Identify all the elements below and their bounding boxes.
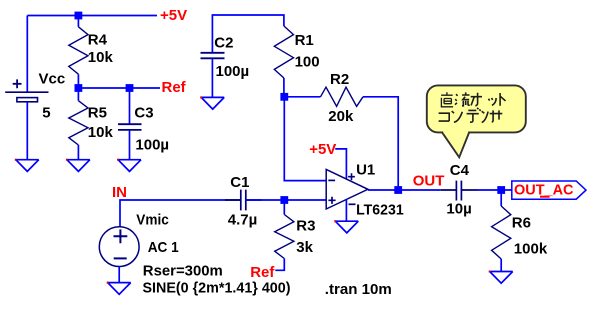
capacitor C3: [118, 124, 142, 130]
svg-text:20k: 20k: [328, 108, 354, 125]
label C2: [214, 35, 233, 52]
svg-text:R2: R2: [330, 71, 349, 88]
resistor R1: [274, 26, 293, 78]
value 100 (R1): [295, 54, 320, 71]
svg-text:R3: R3: [296, 218, 315, 235]
svg-text:10k: 10k: [88, 49, 114, 66]
value 100µ (C2): [216, 63, 250, 80]
label Vcc: [39, 70, 66, 87]
svg-text:SINE(0 {2m*1.41} 400): SINE(0 {2m*1.41} 400): [143, 280, 291, 297]
wire V- pin to ground: [345, 200, 347, 222]
svg-text:U1: U1: [356, 161, 375, 178]
label Vmic: [136, 212, 169, 229]
capacitor C1: [225, 190, 262, 211]
node +5V top junction: [75, 12, 83, 20]
value 10k (R4): [88, 49, 114, 66]
value Rser=300m: [143, 262, 223, 279]
node C3 tap junction: [126, 84, 134, 92]
callout balloon (DC-cut capacitor note): [427, 85, 526, 157]
voltage source Vcc battery: [5, 79, 48, 101]
wire Vcc to ground: [26, 102, 28, 160]
value AC 1: [148, 239, 179, 256]
svg-text:10µ: 10µ: [446, 201, 471, 218]
wire R3 to Ref: [275, 259, 284, 271]
svg-text:C3: C3: [134, 104, 153, 121]
wire +5V to V+ pin: [335, 149, 346, 179]
net label +5V (op-amp): [309, 141, 336, 158]
svg-text:IN: IN: [112, 184, 127, 201]
value 3k (R3): [296, 239, 313, 256]
wire C3 top lead: [129, 88, 131, 124]
resistor R6: [492, 206, 511, 259]
callout text 直流カット コンデンサ: [439, 92, 506, 122]
label R2: [330, 71, 349, 88]
svg-text:Ref: Ref: [162, 79, 187, 96]
label U1: [356, 161, 375, 178]
voltage source Vmic: [99, 227, 139, 267]
net label OUT: [413, 172, 445, 189]
wire R1 bottom lead: [283, 78, 285, 97]
net label Ref (top): [162, 79, 187, 96]
svg-text:100µ: 100µ: [216, 63, 250, 80]
svg-text:100: 100: [295, 54, 320, 71]
svg-text:+5V: +5V: [160, 7, 187, 24]
node R4-R5 junction: [75, 84, 83, 92]
label C3: [134, 104, 153, 121]
svg-text:3k: 3k: [296, 239, 313, 256]
ground (U1): [334, 220, 358, 233]
value LT6231: [356, 202, 404, 219]
net label Ref (bottom): [250, 264, 275, 281]
svg-text:100µ: 100µ: [135, 136, 169, 153]
node output junction: [394, 186, 402, 194]
svg-text:LT6231: LT6231: [356, 202, 404, 219]
wire R6 top lead: [500, 190, 502, 206]
svg-text:R5: R5: [88, 104, 107, 121]
svg-text:OUT: OUT: [413, 172, 445, 189]
label C1: [230, 174, 249, 191]
ground (Vmic): [107, 282, 131, 295]
ground (R5): [66, 159, 90, 172]
value 100µ (C3): [135, 136, 169, 153]
op-amp U1: [326, 169, 368, 209]
resistor R3: [275, 215, 294, 259]
wire C2-R1 top rail: [212, 15, 284, 53]
ground (C2): [200, 96, 224, 109]
label R5: [88, 104, 107, 121]
spice directive .tran: [325, 281, 392, 298]
wire R4 bottom lead: [77, 74, 79, 88]
net label +5V (top): [160, 7, 187, 24]
wire +5V top rail: [27, 16, 157, 93]
wire C1 to noninverting input: [246, 199, 326, 201]
svg-text:R1: R1: [295, 32, 314, 49]
ground (C3): [117, 159, 141, 172]
label R6: [512, 214, 531, 231]
label C4: [450, 162, 470, 179]
node C1-R3 junction: [280, 196, 288, 204]
wire inverting input: [284, 97, 326, 181]
wire C3 to ground: [129, 130, 131, 160]
net label IN: [112, 184, 127, 201]
svg-text:10k: 10k: [88, 124, 114, 141]
value 100k (R6): [514, 241, 548, 258]
wire IN row to C1: [120, 200, 241, 227]
wire C2 to ground: [211, 58, 213, 97]
wire R4 top lead: [77, 16, 79, 27]
wire R6 to ground: [500, 259, 502, 272]
wire R2 right to output: [363, 97, 398, 190]
wire R5 to ground: [77, 145, 79, 160]
capacitor C2: [201, 53, 225, 59]
svg-text:4.7µ: 4.7µ: [228, 211, 257, 228]
wire Ref row: [78, 87, 160, 89]
wire R2 left lead: [284, 96, 320, 98]
resistor R4: [69, 27, 88, 74]
value 20k (R2): [328, 108, 354, 125]
svg-text:R6: R6: [512, 214, 531, 231]
svg-text:5: 5: [42, 104, 50, 121]
svg-text:AC 1: AC 1: [148, 239, 179, 256]
ground (R6): [489, 271, 513, 284]
value 10µ (C4): [446, 201, 471, 218]
wire R5 top lead: [77, 88, 79, 101]
svg-text:+5V: +5V: [309, 141, 336, 158]
svg-text:C1: C1: [230, 174, 249, 191]
wire Vmic to ground: [118, 267, 120, 283]
svg-text:R4: R4: [88, 31, 108, 48]
net flag OUT_AC: [512, 181, 586, 199]
svg-text:Vmic: Vmic: [136, 212, 169, 229]
value SINE: [143, 280, 291, 297]
resistor R5: [69, 101, 88, 145]
node R1-R2 inverting junction: [280, 93, 288, 101]
value 5: [42, 104, 50, 121]
svg-text:C2: C2: [214, 35, 233, 52]
capacitor C4: [440, 181, 477, 201]
svg-text:Vcc: Vcc: [39, 70, 66, 87]
svg-text:.tran 10m: .tran 10m: [325, 281, 392, 298]
node OUT_AC junction: [497, 186, 505, 194]
label R1: [295, 32, 314, 49]
value 4.7µ (C1): [228, 211, 257, 228]
label R3: [296, 218, 315, 235]
svg-text:100k: 100k: [514, 241, 548, 258]
svg-text:Ref: Ref: [250, 264, 275, 281]
resistor R2: [321, 87, 364, 106]
svg-text:Rser=300m: Rser=300m: [143, 262, 223, 279]
value 10k (R5): [88, 124, 114, 141]
ground (Vcc): [15, 159, 39, 172]
wire R3 top lead: [283, 200, 285, 215]
wire output row: [368, 189, 440, 191]
svg-text:C4: C4: [450, 162, 470, 179]
label R4: [88, 31, 108, 48]
wire C4 to OUT_AC: [478, 189, 512, 191]
